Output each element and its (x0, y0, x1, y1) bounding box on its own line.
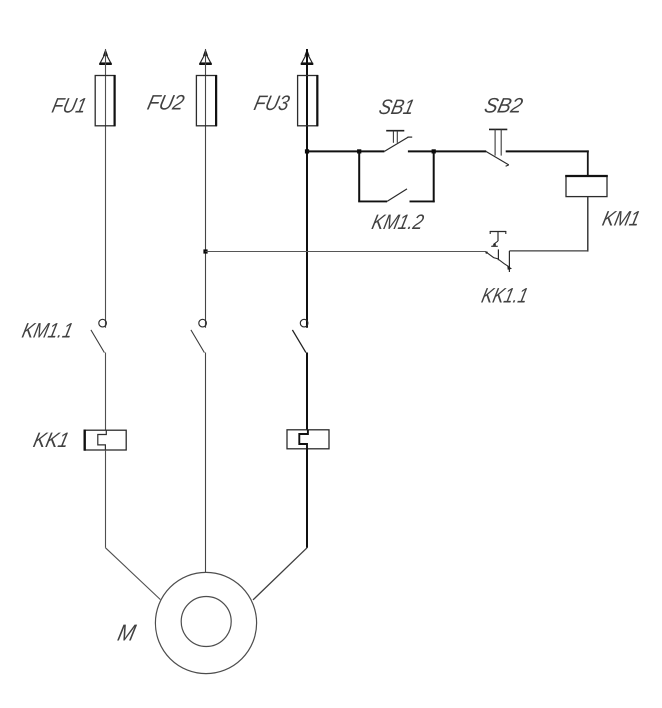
coil KM1 (565, 176, 608, 197)
svg-text:KM1.1: KM1.1 (20, 319, 75, 343)
motor M inner circle (181, 597, 231, 647)
fuse FU1 (95, 75, 115, 126)
svg-text:FU3: FU3 (252, 91, 292, 115)
wire L1 diagonal to motor (106, 548, 161, 600)
supply arrow L1 (99, 49, 112, 64)
pushbutton SB1 (NC stop) (384, 131, 412, 152)
wire L2 lower (205, 353, 207, 573)
motor M outer circle (155, 572, 256, 673)
node junction L2 / control bottom wire (203, 249, 207, 253)
wire control top: SB1 to SB2 (408, 150, 486, 152)
thermal element KK1 pole 1 (85, 430, 127, 451)
thermal contact KK1.1 (NC) (485, 231, 512, 272)
pushbutton SB2 (NO start) (486, 129, 509, 166)
auxiliary contact KM1.2 (NO) blade (387, 189, 407, 202)
svg-text:KK1: KK1 (31, 428, 71, 452)
main contact KM1.1 pole 3 (292, 319, 308, 352)
wire L1 upper (105, 49, 107, 328)
node junction parallel branch right (432, 149, 436, 153)
main contact KM1.1 pole 2 (191, 319, 207, 352)
auxiliary contact KM1.2 branch right wire (433, 151, 435, 202)
svg-text:KK1.1: KK1.1 (479, 284, 530, 308)
wire L2 upper (205, 49, 207, 328)
wire corner down to coil (587, 150, 589, 175)
wire L1 middle (105, 353, 107, 431)
node junction parallel branch left (357, 149, 361, 153)
supply arrow L2 (199, 49, 212, 64)
auxiliary contact KM1.2 branch left wire (358, 151, 360, 201)
thermal element KK1 pole 3 (287, 430, 329, 449)
wire control bottom: coil to KK1.1 (509, 250, 588, 252)
wire KM1.2 bottom right (410, 200, 435, 202)
svg-text:SB2: SB2 (482, 94, 525, 118)
svg-text:SB1: SB1 (377, 95, 417, 119)
fuse FU2 (196, 75, 216, 126)
wire L3 diagonal to motor (253, 548, 307, 600)
main contact KM1.1 pole 1 (91, 319, 106, 352)
wire L1 lower (105, 450, 107, 548)
wire control top: L3 to SB1 (307, 150, 384, 152)
wire control top: SB2 to coil corner (506, 150, 589, 152)
node junction L3 / control wire (305, 149, 309, 153)
supply arrow L3 (301, 49, 314, 64)
svg-text:FU2: FU2 (145, 91, 187, 115)
fuse FU3 (298, 75, 318, 126)
wire L3 upper (306, 49, 308, 328)
wire KM1.2 bottom left (358, 200, 387, 202)
svg-text:KM1.2: KM1.2 (370, 210, 427, 234)
wire L3 middle (306, 353, 308, 431)
wire control bottom: L2 to KK1.1 (206, 251, 487, 253)
wire coil bottom down (587, 197, 589, 252)
svg-text:KM1: KM1 (600, 207, 642, 231)
wire L3 lower (306, 449, 308, 548)
svg-text:FU1: FU1 (50, 94, 89, 118)
